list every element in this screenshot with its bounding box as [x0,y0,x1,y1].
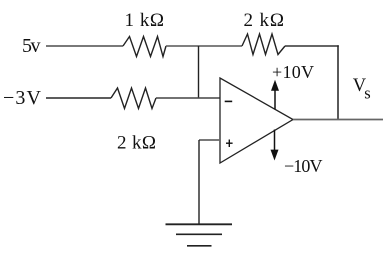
svg-text:−10V: −10V [284,156,323,176]
op-amp plus input sign [226,140,233,148]
wire output [293,119,383,121]
wire [166,45,242,47]
resistor 1kΩ [123,37,166,57]
wire [285,45,339,47]
svg-text:+10V: +10V [272,62,314,82]
wire [156,97,220,99]
wire [46,97,111,99]
resistor 2kΩ feedback [242,34,285,55]
resistor 2kΩ input [111,88,156,109]
wire plus input [199,139,220,141]
wire feedback vertical [337,45,339,119]
positive supply arrow [271,80,279,110]
svg-text:−3V: −3V [3,87,42,109]
svg-text:5v: 5v [22,35,41,57]
node junction vertical wire [198,46,200,98]
svg-text:1 kΩ: 1 kΩ [125,10,165,31]
negative supply arrow [271,130,279,161]
wire to ground vertical [198,140,200,224]
op-amp U1 triangle [220,78,293,163]
svg-text:2 kΩ: 2 kΩ [117,132,156,153]
svg-text:s: s [364,84,370,103]
wire [46,45,123,47]
svg-text:2 kΩ: 2 kΩ [244,10,285,31]
ground [166,224,233,246]
op-amp minus input sign [225,100,233,102]
